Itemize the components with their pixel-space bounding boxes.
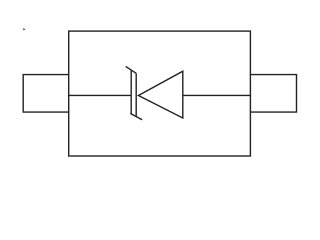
diode D1 cathode bar (zener-style slanted ends) — [126, 66, 143, 119]
wire (anode to right lead) — [183, 94, 251, 96]
left terminal pad — [23, 75, 68, 113]
right terminal pad — [250, 75, 296, 113]
diode D1 anode triangle — [138, 71, 182, 118]
stray mark — [23, 28, 26, 30]
component body outline — [69, 31, 251, 156]
wire (left lead to cathode) — [69, 94, 132, 96]
